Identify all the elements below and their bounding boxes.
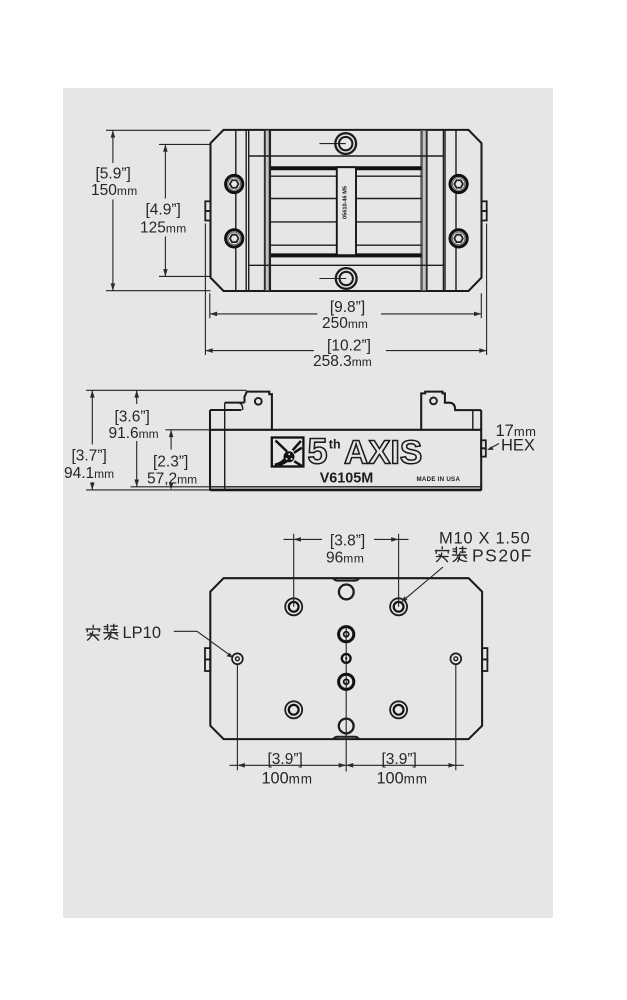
M10 hole top-right [390,598,407,615]
bottom view right keyway tab [482,648,487,659]
top view right serrated jaw band [420,130,422,291]
svg-text:V6105M: V6105M [320,471,374,487]
top view left serrated jaw band [264,130,271,291]
M10 label cjk: zhuang [453,547,467,562]
side view end cap seam [472,410,474,431]
center hole upper [339,627,354,642]
M10 leader line [403,567,443,601]
svg-text:HEX: HEX [501,437,535,455]
dimension 258.3mm extension lines [204,224,206,356]
top view internal vertical lines left [235,130,237,291]
svg-text:[9.8”]: [9.8”] [330,299,365,316]
center hole middle [342,654,351,663]
dimension 57.2mm extension line [166,429,211,431]
dimension 250mm extension lines [209,293,211,318]
top view upper jaw thick bar [271,166,422,170]
svg-text:94.1mm: 94.1mm [64,465,114,482]
top view bottom clamp screw [320,278,347,280]
M10 hole bottom-left [285,701,302,718]
dimension 91.6mm line [136,390,138,404]
top view horizontal rail lines [249,155,444,157]
bottom view outline [210,578,482,739]
svg-text:05610-46 M5: 05610-46 M5 [342,186,348,219]
side view hex drive tab [481,440,486,448]
dimension 100mm line [230,764,464,766]
dimension 57.2mm line [170,430,172,450]
svg-text:[4.9”]: [4.9”] [146,202,181,219]
dimension 100mm extension lines [236,665,238,770]
dimension 125mm extension lines [159,143,211,145]
bottom view top notch [333,578,359,580]
svg-text:[3.9”]: [3.9”] [382,751,417,768]
top view hex screw bottom-left [226,230,243,247]
svg-text:[2.3”]: [2.3”] [153,453,188,470]
svg-text:AXIS: AXIS [344,435,422,472]
svg-text:5: 5 [308,431,328,472]
dimension 96mm line [284,538,323,540]
17mm HEX leader [489,444,499,450]
side view body bottom edges [210,486,481,488]
dimension 150mm extension lines [106,129,211,131]
svg-text:91.6mm: 91.6mm [109,425,159,442]
svg-text:[10.2”]: [10.2”] [327,337,371,354]
LP10 side hole left [232,653,243,664]
top view left keyway tab [205,201,210,211]
dimension 125mm line [164,144,166,198]
top view lower jaw thick bar [271,253,422,257]
top view hex screw top-left [226,175,243,192]
svg-text:MADE IN USA: MADE IN USA [417,476,461,483]
svg-text:th: th [329,437,341,451]
svg-text:150mm: 150mm [91,182,138,199]
svg-text:PS20F: PS20F [472,546,533,566]
side dim top extension line [86,389,247,391]
svg-text:[5.9”]: [5.9”] [96,166,131,183]
top view hex screw top-right [450,175,467,192]
dimension 150mm line [112,130,114,163]
logo box [272,438,304,467]
top view right keyway tab [482,201,487,211]
top view bed lines [271,175,422,177]
logo pinwheel [275,441,302,466]
dimension 250mm line [210,313,318,315]
LP10 label cjk: an [86,625,100,640]
side view jaw carrier line [224,403,226,490]
M10 hole top-left [285,598,302,615]
svg-text:258.3mm: 258.3mm [313,353,372,370]
bottom view top center bore [339,585,354,600]
svg-text:[3.9”]: [3.9”] [268,751,303,768]
side view left jaw hole [255,398,262,405]
M10 hole bottom-right [390,701,407,718]
svg-text:250mm: 250mm [322,315,368,332]
bottom view left keyway tab [205,648,210,659]
side view body right edge [480,410,482,491]
top view body outline [211,130,482,291]
side view right jaw hole [430,398,437,405]
side view left jaw block [245,392,272,430]
svg-text:96mm: 96mm [326,549,364,566]
side view body left edge [209,410,211,491]
svg-text:[3.6”]: [3.6”] [115,408,150,425]
dimension 96mm extension lines [293,534,295,607]
top view top clamp screw [320,143,346,145]
M10 label cjk: an [435,547,449,562]
svg-text:LP10: LP10 [123,624,162,642]
svg-text:M10 X 1.50: M10 X 1.50 [439,529,530,547]
svg-text:[3.8”]: [3.8”] [330,533,365,550]
side view body top edge [210,429,481,431]
top view internal vertical lines right [442,130,444,291]
bottom view bottom center bore [339,719,354,734]
svg-text:100mm: 100mm [262,769,313,787]
side dim bottom extension lines [131,486,211,488]
svg-text:[3.7”]: [3.7”] [72,447,107,464]
svg-text:100mm: 100mm [377,769,428,787]
side view step fillet [238,403,243,410]
LP10 side hole right [450,653,461,664]
bottom view center line [345,626,347,772]
side view left ledge [210,409,242,411]
top view center screw cover plate [337,167,356,255]
svg-text:57,2mm: 57,2mm [147,470,197,487]
center hole lower [339,674,354,689]
top view hex screw bottom-right [450,230,467,247]
side view step surface [225,402,245,404]
dimension 94.1mm line [91,390,93,444]
svg-text:125mm: 125mm [140,220,187,237]
dimension 258.3mm line [205,350,314,352]
side view right jaw block [421,392,481,430]
LP10 label cjk: zhuang [104,624,118,639]
bottom view bottom notch [333,737,359,739]
LP10 leader line [174,631,231,656]
gray drawing sheet [63,88,553,918]
